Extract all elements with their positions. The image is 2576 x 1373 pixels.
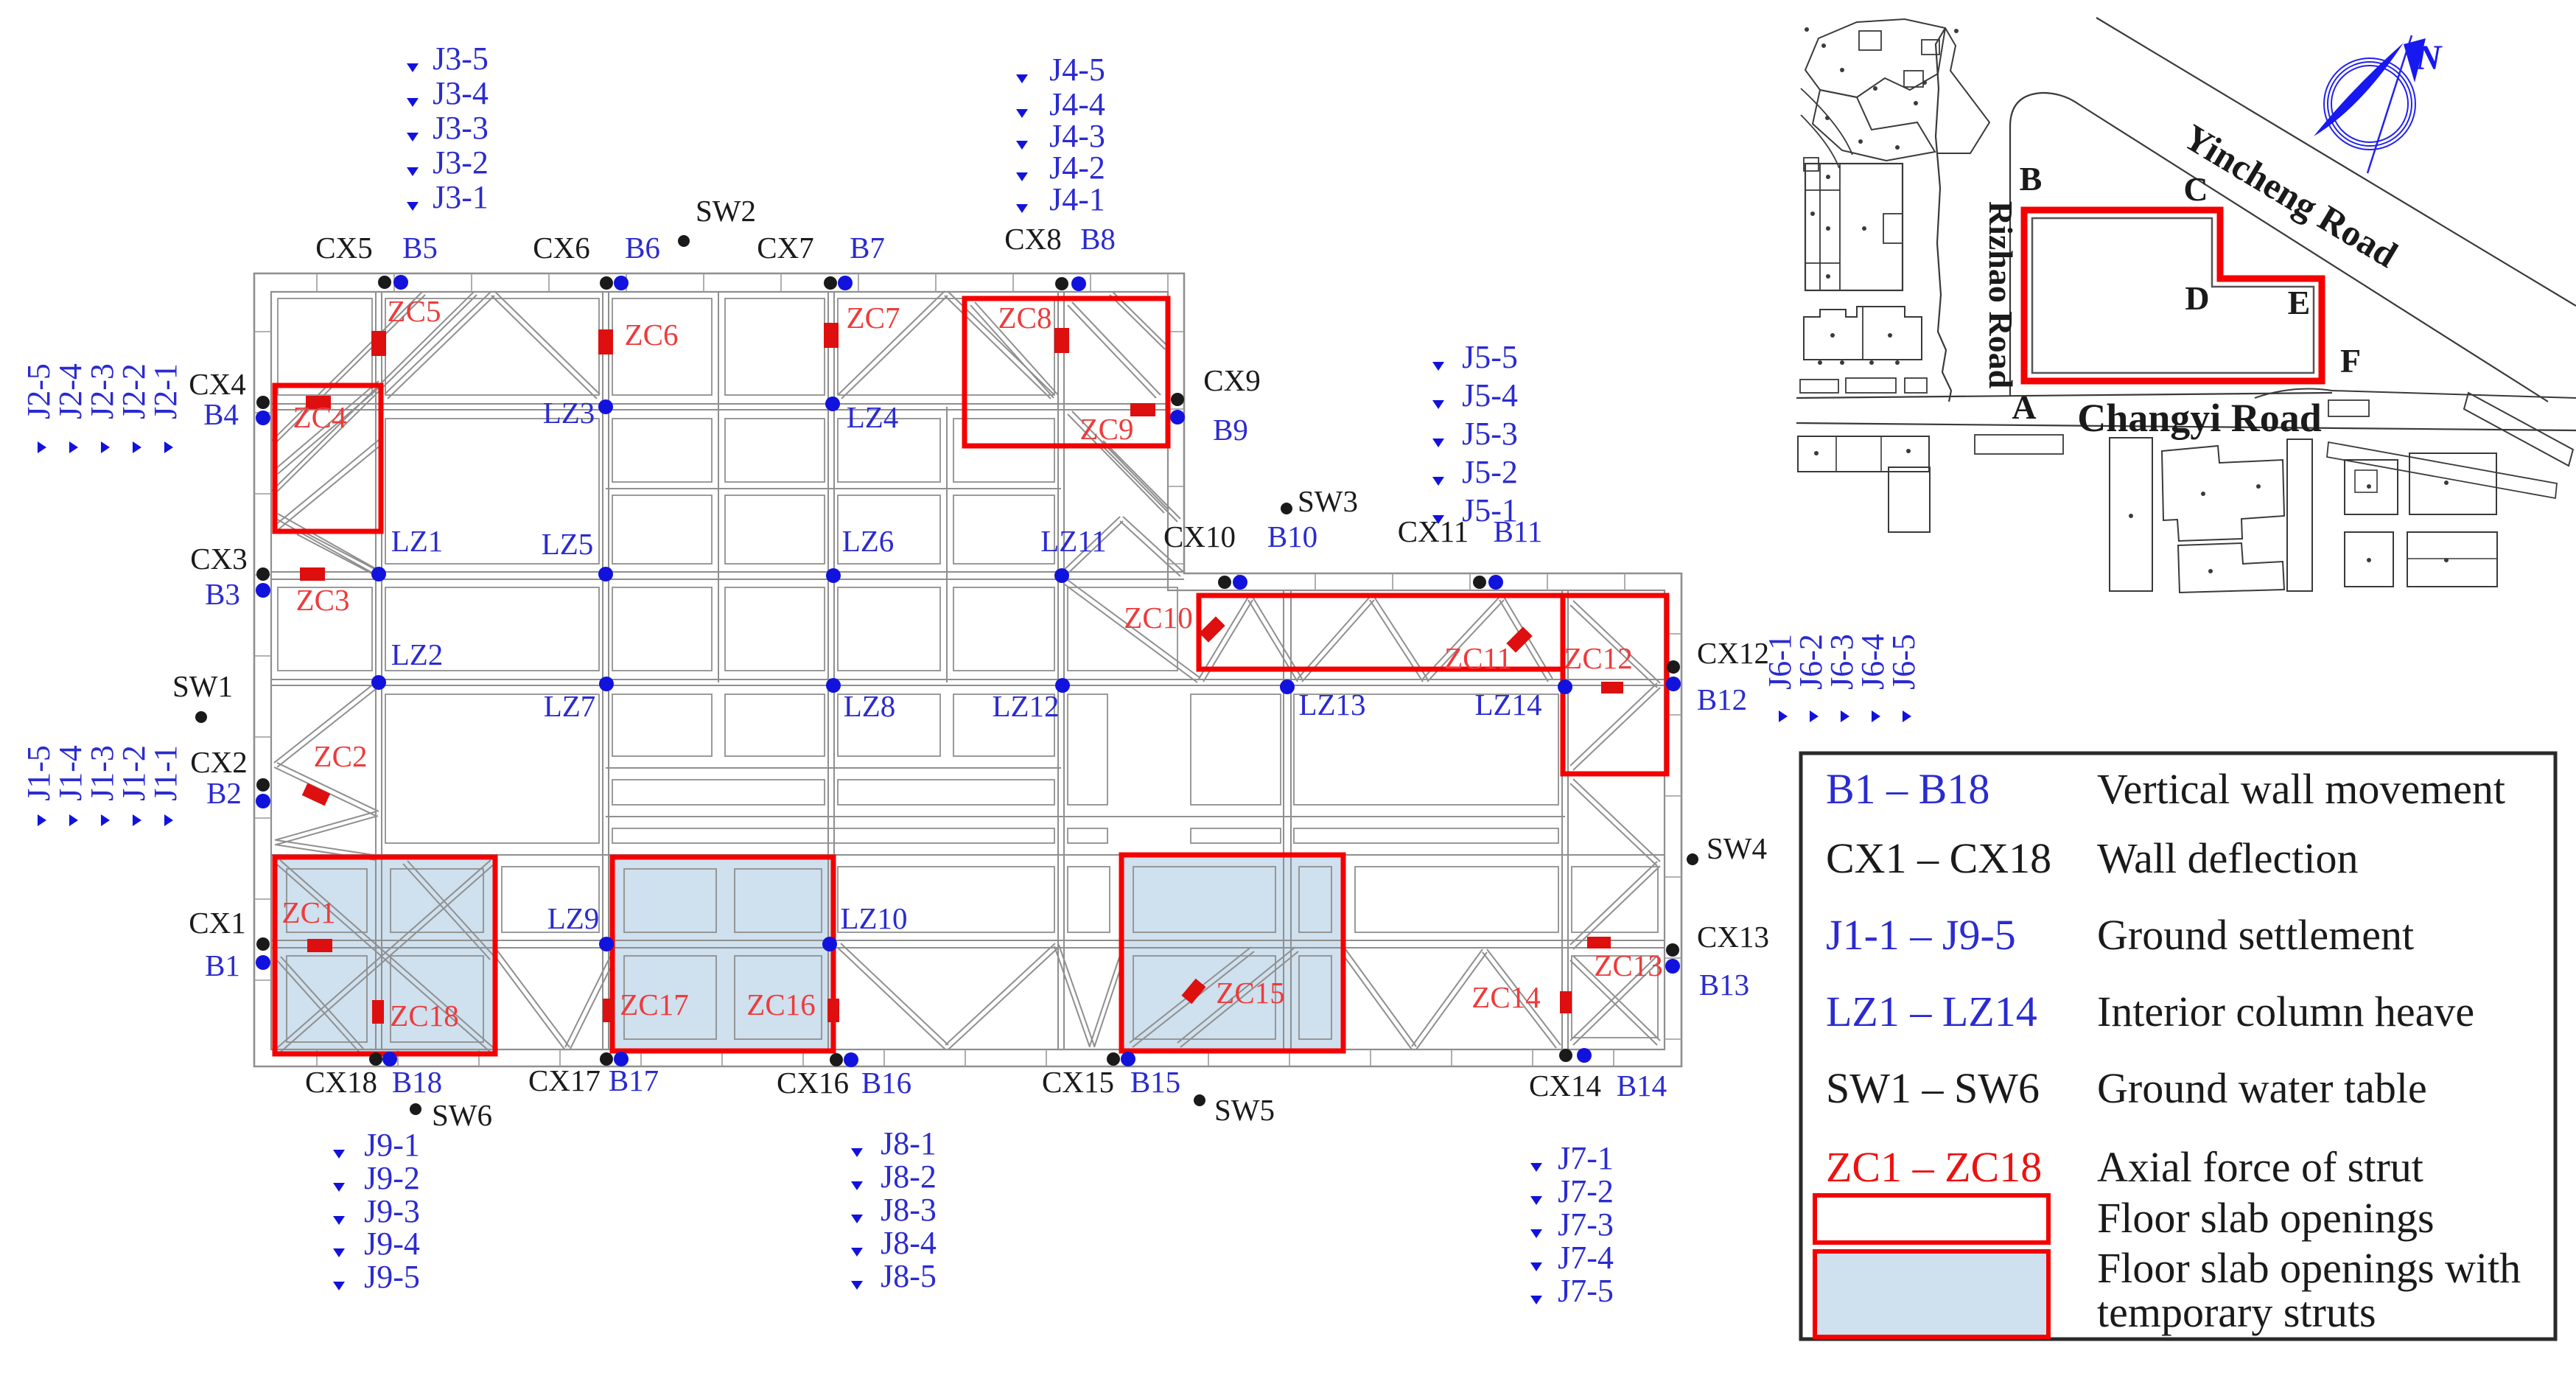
svg-text:B9: B9 xyxy=(1213,413,1248,447)
settlement point J3-5 xyxy=(407,63,419,72)
strut marker ZC1 xyxy=(307,939,332,952)
map dot xyxy=(2444,481,2449,485)
svg-text:Vertical wall movement: Vertical wall movement xyxy=(2097,765,2505,813)
map dot xyxy=(1830,333,1835,338)
svg-text:CX12: CX12 xyxy=(1697,636,1769,670)
big building W bump xyxy=(1883,214,1903,243)
right strip brace 2 xyxy=(1570,862,1657,945)
brace top-left corner pair 1 xyxy=(275,295,425,444)
floor slab opening with struts: box ZC17/ZC16 fill xyxy=(612,857,833,1051)
point CX18 xyxy=(369,1052,382,1066)
point LZ2 xyxy=(371,675,386,690)
svg-text:B: B xyxy=(2020,160,2043,198)
S building 3 tall xyxy=(2110,438,2152,591)
svg-text:E: E xyxy=(2288,284,2311,321)
svg-text:J9-5: J9-5 xyxy=(364,1259,420,1295)
brace lambda-2 left leg xyxy=(839,291,945,394)
column line C3 x=1128 xyxy=(827,292,829,1049)
V brace between box1 and box2 xyxy=(493,954,565,1050)
svg-text:J4-2: J4-2 xyxy=(1049,150,1105,186)
compass pennant xyxy=(2404,38,2426,83)
settlement point J1-2 xyxy=(133,814,141,826)
svg-text:J2-5: J2-5 xyxy=(21,363,57,419)
point B7 xyxy=(838,276,853,290)
Rizhao Road right edge xyxy=(2010,93,2043,396)
map dot xyxy=(2256,484,2261,489)
box1 inner brace xyxy=(276,960,359,1052)
svg-text:J1-4: J1-4 xyxy=(52,745,88,801)
svg-text:ZC3: ZC3 xyxy=(296,583,350,617)
svg-text:SW4: SW4 xyxy=(1707,831,1767,865)
sub-column x=1285 xyxy=(946,407,948,682)
point LZ10 xyxy=(822,937,837,951)
svg-text:B10: B10 xyxy=(1267,520,1317,553)
svg-text:J3-5: J3-5 xyxy=(433,41,489,77)
svg-text:SW3: SW3 xyxy=(1298,484,1358,518)
svg-text:Floor slab openings with: Floor slab openings with xyxy=(2097,1244,2521,1292)
extension left diagonal from LZ11 xyxy=(1065,584,1197,682)
NW small rect 1 xyxy=(1859,31,1881,50)
brace lambda-2 right leg xyxy=(945,296,1051,399)
svg-text:B15: B15 xyxy=(1130,1065,1180,1099)
svg-text:ZC5: ZC5 xyxy=(388,294,441,328)
svg-text:J8-2: J8-2 xyxy=(881,1159,937,1195)
svg-text:J5-2: J5-2 xyxy=(1462,454,1518,490)
svg-text:B8: B8 xyxy=(1080,222,1116,256)
svg-text:CX2: CX2 xyxy=(190,745,247,779)
left strip zigzag 2 xyxy=(274,767,376,816)
svg-text:J7-2: J7-2 xyxy=(1558,1173,1614,1209)
svg-text:A: A xyxy=(2012,388,2036,426)
svg-text:CX11: CX11 xyxy=(1398,514,1469,548)
svg-text:J5-5: J5-5 xyxy=(1462,339,1518,375)
point CX17 xyxy=(600,1052,613,1066)
point LZ4 xyxy=(825,396,840,411)
point B5 xyxy=(393,275,408,290)
svg-text:ZC8: ZC8 xyxy=(998,301,1052,335)
settlement point J4-2 xyxy=(1016,172,1028,181)
svg-text:SW2: SW2 xyxy=(696,194,756,228)
point LZ7 xyxy=(599,677,614,691)
Yincheng Road lower edge xyxy=(2043,93,2548,402)
V brace between box2 and box3 right arm xyxy=(948,948,1058,1049)
svg-text:LZ10: LZ10 xyxy=(840,901,907,935)
svg-text:CX18: CX18 xyxy=(305,1065,377,1099)
map building SW pair xyxy=(1804,307,1922,360)
map dot xyxy=(1858,139,1863,144)
brace ZC9 area xyxy=(1068,414,1164,513)
svg-text:J2-1: J2-1 xyxy=(147,363,183,419)
svg-text:B1: B1 xyxy=(205,948,240,982)
settlement point J4-1 xyxy=(1016,204,1028,213)
sub-row y=663 xyxy=(606,488,1061,489)
settlement point J3-3 xyxy=(407,133,419,142)
svg-text:J9-1: J9-1 xyxy=(364,1127,420,1163)
map dot xyxy=(1869,360,1874,365)
map dot xyxy=(1814,451,1819,455)
svg-text:B3: B3 xyxy=(205,577,240,611)
svg-text:J1-2: J1-2 xyxy=(116,745,152,801)
brace in ZC8 box left xyxy=(970,305,1054,398)
settlement point J1-1 xyxy=(164,814,173,826)
svg-text:LZ8: LZ8 xyxy=(844,689,896,723)
map dot xyxy=(1810,212,1815,216)
svg-text:CX6: CX6 xyxy=(533,231,589,265)
point B10 xyxy=(1233,575,1247,590)
settlement point J3-4 xyxy=(407,98,419,107)
svg-text:J8-5: J8-5 xyxy=(881,1258,937,1294)
svg-text:J8-3: J8-3 xyxy=(881,1192,937,1228)
point B8 xyxy=(1071,276,1086,291)
svg-text:J6-5: J6-5 xyxy=(1886,634,1922,690)
strut marker ZC11 xyxy=(1506,626,1532,652)
opening with struts box1 outline xyxy=(275,857,495,1054)
svg-text:J1-3: J1-3 xyxy=(84,745,120,801)
svg-text:ZC14: ZC14 xyxy=(1471,980,1540,1014)
point LZ12 xyxy=(1055,678,1070,693)
svg-text:Changyi Road: Changyi Road xyxy=(2077,396,2322,440)
big building W inner v1 xyxy=(1819,164,1821,290)
svg-text:ZC10: ZC10 xyxy=(1124,601,1192,635)
settlement point J8-2 xyxy=(851,1181,863,1190)
svg-text:Ground settlement: Ground settlement xyxy=(2097,911,2414,959)
svg-text:Ground water table: Ground water table xyxy=(2097,1064,2427,1112)
point CX7 xyxy=(824,276,837,290)
strut marker ZC6 xyxy=(598,329,613,354)
map dot xyxy=(1821,43,1826,48)
map dot xyxy=(2201,492,2205,496)
point CX2 xyxy=(256,778,270,792)
point CX6 xyxy=(600,276,613,290)
settlement point J3-2 xyxy=(407,167,419,176)
settlement point J5-1 xyxy=(1432,515,1444,524)
S building 1 inner xyxy=(1835,436,1837,472)
settlement point J8-1 xyxy=(851,1148,863,1157)
left strip zigzag 3 xyxy=(275,811,377,840)
svg-text:ZC18: ZC18 xyxy=(390,999,458,1033)
V brace before C6 xyxy=(1483,952,1556,1048)
brace in ZC4 box lower xyxy=(278,444,382,530)
point B16 xyxy=(844,1052,858,1067)
svg-text:CX5: CX5 xyxy=(315,231,372,265)
settlement point J7-2 xyxy=(1530,1196,1542,1205)
svg-text:LZ12: LZ12 xyxy=(992,689,1059,723)
svg-text:ZC11: ZC11 xyxy=(1444,641,1512,675)
svg-text:CX1: CX1 xyxy=(189,906,245,940)
floor slab opening box ZC8/ZC9 xyxy=(965,298,1168,446)
S slanted strip 1 xyxy=(2464,393,2573,466)
svg-text:C: C xyxy=(2183,170,2208,208)
ZC12 box brace upper xyxy=(1570,605,1657,688)
point SW3 xyxy=(1281,503,1292,514)
svg-text:D: D xyxy=(2185,279,2209,317)
settlement point J1-4 xyxy=(69,814,78,826)
svg-text:J4-3: J4-3 xyxy=(1049,118,1105,154)
Yincheng Road upper edge xyxy=(2096,18,2576,306)
sub-row y=1108 xyxy=(606,816,1565,817)
brace inside box3 pair2 xyxy=(1180,951,1298,1047)
V brace after box3 left xyxy=(1341,952,1412,1049)
svg-text:Floor slab openings: Floor slab openings xyxy=(2097,1194,2435,1242)
svg-text:J3-2: J3-2 xyxy=(433,144,489,181)
row line R3 y=926 xyxy=(271,685,1665,686)
legend open box xyxy=(1815,1195,2048,1243)
excavation wall inner line xyxy=(271,292,1665,1049)
settlement point J1-5 xyxy=(38,814,46,826)
point CX13 xyxy=(1666,943,1679,957)
map dot xyxy=(1805,27,1809,32)
settlement point J5-2 xyxy=(1432,477,1444,486)
point B15 xyxy=(1121,1052,1135,1066)
point B13 xyxy=(1665,959,1680,974)
svg-text:J4-5: J4-5 xyxy=(1049,52,1105,88)
svg-text:LZ1 – LZ14: LZ1 – LZ14 xyxy=(1826,988,2037,1035)
svg-text:ZC17: ZC17 xyxy=(620,988,688,1021)
settlement point J7-3 xyxy=(1530,1229,1542,1238)
settlement point J2-4 xyxy=(69,441,78,453)
point SW6 xyxy=(410,1103,421,1115)
brace inside box3 pair1 xyxy=(1133,951,1254,1047)
settlement point J9-4 xyxy=(333,1248,345,1257)
svg-text:ZC6: ZC6 xyxy=(625,318,679,352)
SW small rects row xyxy=(1800,380,1838,393)
map dot xyxy=(2367,484,2371,489)
svg-text:CX14: CX14 xyxy=(1529,1069,1601,1103)
svg-text:ZC9: ZC9 xyxy=(1080,412,1134,446)
map dot xyxy=(1826,274,1830,279)
svg-text:J2-2: J2-2 xyxy=(116,363,152,419)
settlement point J8-3 xyxy=(851,1215,863,1223)
brace upper block SE corner lambda right xyxy=(1120,521,1180,576)
Changyi Road upper edge xyxy=(1796,393,2332,398)
svg-text:LZ11: LZ11 xyxy=(1040,524,1107,558)
big building W inner h1 xyxy=(1805,189,1840,191)
strut marker ZC13 xyxy=(1587,937,1611,948)
box1 inner brace 2 xyxy=(403,864,490,960)
strut marker ZC8 xyxy=(1054,328,1069,353)
brace ZC9 lower xyxy=(1100,444,1177,522)
settlement point J4-4 xyxy=(1016,109,1028,118)
column line C4 x=1440 xyxy=(1057,292,1059,1049)
point SW1 xyxy=(195,711,207,723)
column line C1 x=514 xyxy=(375,292,377,1049)
point CX14 xyxy=(1559,1049,1572,1062)
svg-text:ZC4: ZC4 xyxy=(293,400,347,434)
point CX1 xyxy=(256,937,270,951)
S left small rect xyxy=(1975,435,2063,454)
map dot xyxy=(1840,360,1844,365)
map dot xyxy=(1826,175,1830,179)
brace lambda-1 left leg xyxy=(385,291,491,394)
svg-text:CX16: CX16 xyxy=(777,1066,849,1100)
svg-text:J9-2: J9-2 xyxy=(364,1160,420,1196)
S building 10 xyxy=(2407,532,2497,587)
point LZ5 xyxy=(598,567,613,581)
svg-text:J5-3: J5-3 xyxy=(1462,416,1518,452)
svg-text:B7: B7 xyxy=(850,231,885,265)
svg-text:J3-1: J3-1 xyxy=(433,179,489,215)
column line C5 x=1747 xyxy=(1283,590,1284,1049)
strut marker ZC12 xyxy=(1601,682,1623,694)
settlement point J7-1 xyxy=(1530,1163,1542,1172)
svg-text:Axial force of strut: Axial force of strut xyxy=(2097,1143,2423,1191)
box1 X diagonal NW-SE xyxy=(277,864,491,1052)
map dot xyxy=(1825,116,1830,120)
settlement point J4-5 xyxy=(1016,74,1028,83)
slab panel insets xyxy=(278,298,372,395)
svg-text:Interior column heave: Interior column heave xyxy=(2097,988,2474,1035)
map building cluster NW xyxy=(1805,19,1945,97)
point CX3 xyxy=(256,567,270,581)
svg-text:ZC7: ZC7 xyxy=(847,301,900,335)
svg-text:J2-3: J2-3 xyxy=(84,363,120,419)
row line R4 y=1281 xyxy=(271,947,1665,948)
svg-text:F: F xyxy=(2340,342,2361,380)
floor slab opening box ZC4 xyxy=(275,385,381,531)
point LZ6 xyxy=(826,568,841,583)
svg-text:CX3: CX3 xyxy=(190,542,247,576)
svg-text:LZ2: LZ2 xyxy=(391,637,444,671)
point B18 xyxy=(382,1052,397,1066)
settlement point J4-3 xyxy=(1016,141,1028,150)
NW cluster lower part xyxy=(1813,90,1935,161)
svg-text:J8-4: J8-4 xyxy=(881,1225,937,1261)
right strip X near ZC14 a xyxy=(1570,960,1657,1045)
svg-text:CX13: CX13 xyxy=(1697,920,1769,954)
point CX10 xyxy=(1218,576,1231,589)
svg-text:LZ5: LZ5 xyxy=(542,527,594,561)
map dot xyxy=(1818,360,1822,365)
point B3 xyxy=(256,583,270,598)
svg-text:J1-5: J1-5 xyxy=(21,745,57,801)
V brace between box2 and box3 left arm xyxy=(838,948,945,1049)
extension truss zigzag xyxy=(1203,600,1253,682)
svg-text:ZC2: ZC2 xyxy=(314,739,368,773)
point SW4 xyxy=(1687,853,1698,865)
strut marker ZC18 xyxy=(372,1000,384,1024)
svg-text:CX4: CX4 xyxy=(189,367,245,401)
S building 8 xyxy=(2409,453,2496,514)
point SW2 xyxy=(678,235,690,247)
svg-text:temporary struts: temporary struts xyxy=(2097,1288,2376,1336)
map dot xyxy=(1954,29,1959,33)
site inner wall line xyxy=(2032,218,2314,373)
NW arcs xyxy=(1801,88,1852,168)
svg-text:B1 – B18: B1 – B18 xyxy=(1826,765,1989,813)
left strip zigzag 4 xyxy=(275,845,377,860)
big building W inner v2 xyxy=(1839,164,1841,290)
legend border xyxy=(1801,753,2555,1339)
brace below ZC4 box xyxy=(275,518,377,576)
point B9 xyxy=(1170,410,1185,425)
point CX12 xyxy=(1667,660,1680,674)
floor slab opening box ZC12 xyxy=(1563,595,1667,774)
svg-text:J8-1: J8-1 xyxy=(881,1125,937,1161)
settlement point J8-4 xyxy=(851,1248,863,1257)
point B1 xyxy=(256,955,270,970)
settlement point J2-5 xyxy=(38,441,46,453)
row line R1 y=552 xyxy=(271,409,1168,410)
settlement point J2-1 xyxy=(164,441,173,453)
svg-text:ZC13: ZC13 xyxy=(1594,948,1662,982)
strut marker ZC3 xyxy=(300,567,325,581)
V brace before box3 xyxy=(1054,946,1090,1047)
S building 6 strip xyxy=(2287,439,2312,591)
Rizhao Road left edge (parcel boundary) xyxy=(1936,28,1951,402)
brace top-left corner pair 2 xyxy=(275,295,477,494)
svg-text:LZ4: LZ4 xyxy=(847,400,899,434)
settlement point J7-4 xyxy=(1530,1262,1542,1271)
svg-text:CX1 – CX18: CX1 – CX18 xyxy=(1826,834,2051,882)
svg-text:B16: B16 xyxy=(861,1066,911,1100)
settlement point J6-3 xyxy=(1841,710,1849,722)
big building W inner h2 xyxy=(1805,262,1840,264)
svg-text:B5: B5 xyxy=(402,231,438,265)
svg-text:B13: B13 xyxy=(1699,968,1749,1002)
svg-text:B18: B18 xyxy=(392,1065,442,1099)
compass rings xyxy=(2331,66,2408,142)
settlement point J2-2 xyxy=(133,441,141,453)
compass needle line xyxy=(2367,35,2412,173)
map dot xyxy=(1906,449,1911,453)
floor slab opening with struts: box ZC15 fill xyxy=(1121,855,1343,1051)
settlement point J9-3 xyxy=(333,1216,345,1225)
svg-text:J4-4: J4-4 xyxy=(1049,86,1105,122)
site red outline xyxy=(2024,210,2322,381)
brace left wall to LZ1 xyxy=(297,534,377,576)
settlement point J6-4 xyxy=(1872,710,1880,722)
point LZ11 xyxy=(1054,568,1069,583)
settlement point J9-1 xyxy=(333,1150,345,1159)
svg-text:J5-1: J5-1 xyxy=(1462,492,1518,528)
svg-text:B12: B12 xyxy=(1697,682,1747,716)
settlement point J5-4 xyxy=(1432,400,1444,409)
opening with struts box3 outline xyxy=(1121,855,1343,1051)
legend shaded box xyxy=(1815,1251,2048,1337)
S slanted strip 2 xyxy=(2327,442,2557,498)
map dot xyxy=(2208,569,2213,573)
box1 X diagonal SW-NE xyxy=(280,864,494,1052)
column line C2 x=822 xyxy=(602,292,603,1049)
settlement point J9-2 xyxy=(333,1183,345,1192)
sub-row y=1042 xyxy=(606,767,1061,769)
Changyi Road lower edge xyxy=(1796,423,2576,430)
map dot xyxy=(1922,80,1927,85)
NW small rect 2 xyxy=(1904,71,1923,87)
settlement point J8-5 xyxy=(851,1281,863,1290)
strut marker ZC15 xyxy=(1181,979,1205,1005)
map big building W xyxy=(1805,164,1903,290)
map dot xyxy=(1895,145,1900,150)
svg-text:ZC15: ZC15 xyxy=(1216,976,1284,1010)
map dot xyxy=(2444,558,2449,562)
svg-text:J4-1: J4-1 xyxy=(1049,181,1105,217)
strut marker ZC9 xyxy=(1130,403,1155,416)
settlement point J1-3 xyxy=(101,814,110,826)
svg-text:CX17: CX17 xyxy=(528,1063,601,1097)
svg-text:J7-3: J7-3 xyxy=(1558,1206,1614,1243)
point B11 xyxy=(1488,575,1503,590)
brace upper block SE corner lambda xyxy=(1063,521,1123,578)
svg-text:B2: B2 xyxy=(206,776,242,810)
map dot xyxy=(1840,68,1844,72)
V brace after box3 right xyxy=(1416,952,1487,1049)
svg-text:SW1: SW1 xyxy=(172,669,233,703)
svg-text:LZ6: LZ6 xyxy=(842,524,895,558)
svg-text:CX15: CX15 xyxy=(1042,1065,1114,1099)
point B17 xyxy=(614,1052,629,1066)
NW small rect 4 xyxy=(1804,158,1819,171)
